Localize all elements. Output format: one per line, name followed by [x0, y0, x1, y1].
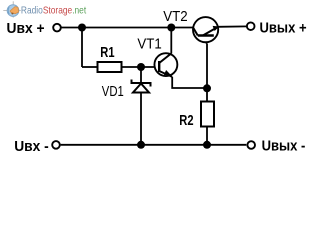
wire R1 right to VT1 base [122, 66, 159, 68]
node R1 / VD1 / VT1 base [137, 63, 145, 71]
wire to R1 left [82, 66, 98, 68]
wire drop from input rail to R1 [81, 28, 83, 68]
svg-text:Uвых +: Uвых + [260, 19, 307, 36]
terminal Uвых - [247, 141, 255, 149]
svg-text:RadioStorage.net: RadioStorage.net [21, 5, 87, 16]
wire top rail input [61, 27, 194, 29]
svg-text:Uвх +: Uвх + [7, 21, 45, 38]
node input rail / R1 drop [78, 24, 86, 32]
svg-text:VD1: VD1 [102, 83, 124, 100]
terminal Uвх + [53, 24, 61, 32]
node input rail / VT1 collector [167, 24, 175, 32]
wire R2 bottom to rail [206, 127, 208, 145]
terminal Uвх - [52, 141, 60, 149]
junction dots [78, 24, 211, 149]
wire VT2 base down to R2 [205, 36, 207, 44]
resistor R1 [98, 62, 122, 72]
svg-text:R2: R2 [179, 112, 193, 129]
node VT1 emitter / VT2 base / R2 [203, 84, 211, 92]
wire VD1 vertical [140, 67, 142, 145]
node R2 / bottom rail [203, 141, 211, 149]
node VD1 / bottom rail [137, 141, 145, 149]
resistor R2 [201, 102, 214, 127]
wire VT1 collector up to rail [170, 28, 172, 54]
watermark text RadioStorage.net [21, 5, 87, 16]
svg-text:VT1: VT1 [137, 36, 161, 52]
terminal Uвых + [247, 22, 255, 30]
wire VT2 emitter to output [218, 25, 247, 27]
watermark logo icon [3, 1, 21, 17]
transistor VT1 [154, 53, 177, 77]
wire VT1 emitter down [172, 77, 207, 88]
wire bottom rail [61, 144, 247, 146]
transistor VT2 [193, 17, 219, 42]
svg-text:Uвых -: Uвых - [262, 137, 306, 154]
svg-text:VT2: VT2 [163, 8, 187, 24]
svg-text:Uвх -: Uвх - [14, 138, 49, 155]
svg-text:R1: R1 [100, 44, 114, 61]
zener diode VD1 [132, 80, 151, 93]
